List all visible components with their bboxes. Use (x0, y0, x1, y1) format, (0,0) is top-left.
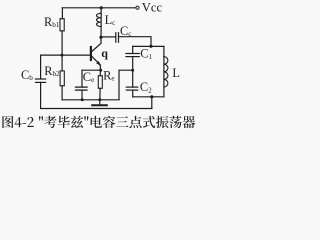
wire Ce upper lead (81, 70, 83, 87)
node emitter junction dot (99, 69, 102, 72)
transistor Q emitter lead with arrow (92, 56, 100, 64)
ground bar (92, 104, 107, 106)
svg-text:C1: C1 (140, 47, 152, 61)
svg-text:L: L (172, 66, 180, 80)
wire tank top bus (133, 45, 164, 47)
wire Rb2 upper (base node down) (61, 55, 63, 71)
wire Cc to tank corner (119, 37, 152, 47)
node C1-C2 midpoint dot (131, 69, 134, 72)
inductor L coil loops (164, 57, 168, 87)
svg-text:q: q (101, 46, 108, 60)
resistor Rb2 (60, 71, 64, 86)
wire C1 upper lead (132, 46, 134, 53)
resistor Re (98, 76, 102, 89)
svg-text:Ce: Ce (83, 70, 94, 84)
wire midpoint tap to left bus (119, 70, 133, 100)
capacitor Cb (36, 79, 46, 82)
node collector junction dot (99, 36, 102, 39)
wire Re lower lead (99, 88, 101, 100)
wire top supply rail (62, 7, 136, 9)
wire bus drop to outer rail (151, 97, 153, 109)
ground stem (99, 100, 101, 104)
node top rail Lc junction dot (100, 6, 103, 9)
wire Cb upper lead (40, 55, 42, 78)
transistor Q base bar (90, 47, 92, 60)
wire inner left ground bus (62, 99, 119, 101)
power Vcc terminal circle (136, 6, 139, 9)
svg-text:Rb1: Rb1 (44, 15, 60, 29)
wire Cb lower lead to bottom rail (40, 82, 42, 108)
wire Rb2 lower lead (61, 86, 63, 100)
transistor Q collector lead (92, 37, 101, 51)
wire emitter down to node (99, 65, 102, 71)
wire Rb1 to base node (61, 31, 63, 55)
svg-text:Lc: Lc (105, 13, 116, 27)
svg-text:Cc: Cc (120, 24, 131, 38)
node base junction dot (60, 54, 63, 57)
capacitor C2 (126, 87, 138, 90)
wire C1 to midpoint (132, 57, 134, 71)
resistor Rb1 (60, 19, 64, 31)
wire C2 lower lead (132, 90, 134, 97)
caption 图4-2 "考毕兹"电容三点式振荡器 (2, 116, 195, 128)
svg-text:C2: C2 (140, 80, 152, 94)
svg-text:Vcc: Vcc (142, 1, 163, 15)
capacitor Cc (116, 33, 119, 43)
wire emitter to Ce branch (82, 69, 101, 71)
wire Ce lower lead (81, 90, 83, 100)
node Re bus dot (98, 98, 101, 101)
svg-text:Cb: Cb (21, 68, 33, 82)
node bus to outer rail dot (150, 95, 153, 98)
wire Re upper lead (99, 70, 101, 76)
node Ce bus dot (81, 98, 84, 101)
wire right tank bottom bus (133, 96, 164, 98)
capacitor Ce (76, 87, 88, 90)
wire bottom outer rail (41, 108, 152, 110)
inductor Lc (96, 8, 101, 37)
wire C2 upper lead (132, 70, 134, 87)
wire collector to Cc (101, 36, 115, 38)
wire L column (163, 46, 165, 96)
node tank top junction dot (149, 45, 152, 48)
wire Rb1 column top (61, 8, 63, 19)
svg-text:Re: Re (103, 69, 114, 83)
svg-text:Rb2: Rb2 (44, 64, 60, 78)
capacitor C1 (126, 54, 139, 57)
wire base (41, 54, 91, 56)
